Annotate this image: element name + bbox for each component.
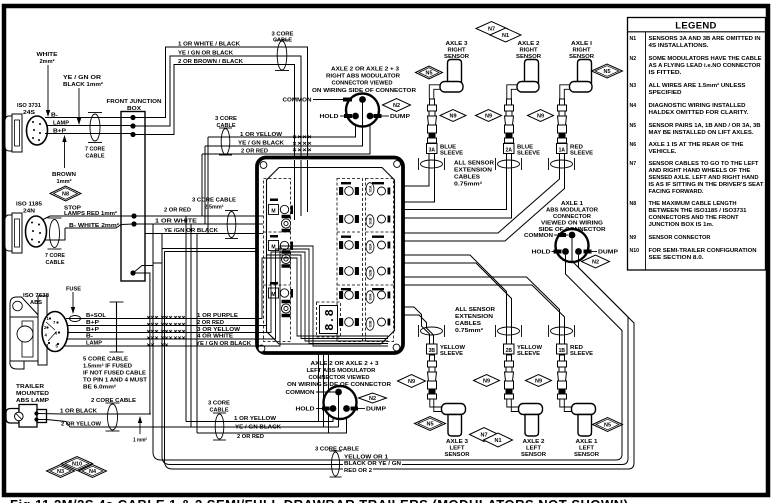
svg-text:RIGHT: RIGHT [573,48,591,54]
svg-text:SENSOR CABLES TO GO TO THE LEF: SENSOR CABLES TO GO TO THE LEFT [649,161,760,167]
sensor connector 2B stack [505,355,514,399]
svg-text:3 CORE CABLE: 3 CORE CABLE [315,447,359,453]
sensor connector 1A stack [558,99,567,143]
sleeve 3A [427,144,438,154]
svg-text:MOUNTED: MOUNTED [16,391,49,397]
svg-text:SEE SECTION 8.0.: SEE SECTION 8.0. [649,255,705,261]
svg-text:S3A: S3A [369,293,373,300]
svg-text:2 OR BROWN / BLACK: 2 OR BROWN / BLACK [178,59,244,65]
svg-text:S3B: S3B [369,320,373,327]
svg-text:1 OR BLACK: 1 OR BLACK [60,409,97,415]
node N5 axle3 left [415,417,446,431]
wires box bottom to left modulator [318,354,320,422]
svg-text:3 OR YELLOW: 3 OR YELLOW [197,327,241,333]
node N9 sensor 3B [398,375,426,388]
riser to stop wires [207,137,209,234]
node N7 bottom [470,428,499,442]
crimp marks bundle B [293,136,311,152]
pin DUMP [367,113,374,120]
svg-text:LEFT: LEFT [450,446,465,452]
svg-text:SENSORS 3A AND 3B ARE OMITTED: SENSORS 3A AND 3B ARE OMITTED IN [649,36,761,42]
screw top-left [260,162,267,169]
svg-text:COMMON: COMMON [524,233,553,239]
svg-text:COMMON: COMMON [286,390,315,396]
sleeve 2B [504,344,515,354]
solenoid row 4 mid [340,267,359,276]
svg-text:8.8: 8.8 [323,309,337,331]
wire 1 OR WHITE / BLACK [133,47,308,156]
pin DUMP [575,248,582,255]
svg-text:SENSOR: SENSOR [574,452,600,458]
bundle B verticals inside box [307,160,309,212]
svg-text:TRAILER: TRAILER [16,384,45,390]
svg-text:RIGHT: RIGHT [520,48,538,54]
node N5 axle1 left [593,418,623,432]
svg-text:BROWN: BROWN [52,172,76,178]
svg-text:AXLE 2: AXLE 2 [523,439,545,445]
wire B+P pin2 [67,325,257,327]
svg-text:3 CORE: 3 CORE [215,116,237,122]
svg-text:0.75mm²: 0.75mm² [455,327,483,334]
node N1 top [490,28,521,42]
dashed compartment right [366,179,394,342]
svg-text:N4: N4 [630,103,637,109]
node N10 [62,457,93,471]
wire B- to junction box [45,117,133,119]
svg-text:N5: N5 [604,423,611,429]
wire 2 OR RED to right modulator [202,121,370,154]
svg-text:EXTENSION: EXTENSION [454,168,492,174]
svg-text:N4: N4 [89,469,97,475]
svg-text:CONNECTORS AND THE FRONT: CONNECTORS AND THE FRONT [649,215,740,221]
svg-text:N8: N8 [630,201,637,207]
svg-text:AXLE 2: AXLE 2 [518,41,540,47]
svg-text:YE / GN OR BLACK: YE / GN OR BLACK [178,50,234,56]
legend box [628,18,766,271]
svg-text:2 OR RED: 2 OR RED [237,434,264,440]
svg-text:TO PIN 1 AND 4 MUST: TO PIN 1 AND 4 MUST [83,378,147,384]
axle 3 left sensor head [442,404,466,415]
node N9 sensor 2A [476,110,502,122]
svg-text:DUMP: DUMP [366,407,386,413]
svg-text:AXLE 1: AXLE 1 [561,201,584,207]
svg-text:B+P: B+P [53,128,66,134]
wire LAMP pin5 [64,345,257,347]
svg-text:1 OR YELLOW: 1 OR YELLOW [240,132,283,138]
svg-text:DIAGNOSTIC WIRING INSTALLED: DIAGNOSTIC WIRING INSTALLED [649,103,746,109]
svg-text:3A: 3A [429,147,436,153]
svg-text:FACING FORWARD.: FACING FORWARD. [649,189,705,195]
wire stop lamps red [42,216,134,220]
svg-text:1A: 1A [559,147,566,153]
pin HOLD [330,405,337,412]
wire B- pin3 [66,338,257,340]
svg-text:LEFT: LEFT [526,446,541,452]
svg-text:YE / GN OR: YE / GN OR [63,75,102,81]
junction dots middle [131,213,136,218]
svg-text:EXTENSION: EXTENSION [455,314,493,320]
svg-text:S2B: S2B [369,269,373,276]
svg-text:ISO 7638: ISO 7638 [23,293,50,299]
wire YE/GN OR BLACK [145,233,257,235]
svg-text:S2A: S2A [369,243,373,250]
extension cable marker 1B [551,327,573,335]
svg-text:CABLE: CABLE [86,154,105,160]
svg-text:N9: N9 [535,379,542,385]
wire 2 OR RED stop lamps [134,215,257,217]
solenoid row 3 mid [340,241,359,250]
wire 1 OR BLACK [39,413,152,416]
svg-text:CONNECTOR VIEWED: CONNECTOR VIEWED [309,375,370,381]
svg-text:SENSED AXLE. LEFT AND RIGHT HA: SENSED AXLE. LEFT AND RIGHT HAND [649,175,759,181]
wire from pin to B- [44,228,65,240]
svg-text:N6: N6 [630,142,637,148]
cable to axle 1 left head [560,399,572,407]
svg-text:N5: N5 [425,71,432,77]
svg-text:CONNECTOR VIEWED: CONNECTOR VIEWED [332,81,393,87]
svg-text:BE 6.0mm²: BE 6.0mm² [83,384,116,391]
7 core cable marker [50,220,60,248]
svg-text:Fig.11 2M/2S 4s CABLE 1 & 2 SE: Fig.11 2M/2S 4s CABLE 1 & 2 SEMI/FULL DR… [10,497,629,503]
svg-text:SPECIFIED: SPECIFIED [649,90,682,96]
drop wire to left modulator yellow [185,216,187,422]
svg-text:AXLE 2 OR AXLE 2 + 3: AXLE 2 OR AXLE 2 + 3 [311,361,380,367]
svg-text:AXLE 1: AXLE 1 [576,439,599,445]
drop wire to left modulator ye/gn [190,224,192,427]
svg-text:ALL SENSOR: ALL SENSOR [455,307,495,313]
svg-text:SENSOR: SENSOR [445,452,471,458]
link junction to bus [133,263,162,273]
valve tag S2A [366,241,374,254]
5 core cable marker [116,302,118,352]
svg-text:YE / GN OR BLACK: YE / GN OR BLACK [196,341,252,347]
svg-text:ALL SENSOR: ALL SENSOR [454,161,494,167]
display 88 [317,302,341,337]
svg-text:7 CORE: 7 CORE [85,147,105,153]
svg-text:RIGHT ABS MODULATOR: RIGHT ABS MODULATOR [326,74,401,80]
wire 2B sensor b [403,263,512,344]
svg-text:0.75mm²: 0.75mm² [454,181,482,188]
wire 2 OR RED to left modulator [197,411,347,433]
node N7 top [476,22,507,36]
svg-text:3 CORE: 3 CORE [208,401,230,407]
coil L1 [281,215,290,232]
svg-text:AXLE 3: AXLE 3 [446,439,469,445]
svg-text:1 OR WHITE: 1 OR WHITE [155,219,197,225]
wire 3A sensor b [403,153,435,202]
node N5 axle1 right [592,64,623,78]
svg-text:HALDEX OMITTED FOR CLARITY.: HALDEX OMITTED FOR CLARITY. [649,110,750,116]
svg-text:VIEWED ON WIRING: VIEWED ON WIRING [541,221,604,227]
svg-text:N3: N3 [57,469,64,475]
junction dots top [130,115,135,120]
axle 2 left sensor head [519,404,543,415]
svg-text:FRONT JUNCTION: FRONT JUNCTION [107,99,162,105]
wire B+SOL [66,318,257,320]
svg-text:N2: N2 [592,260,599,266]
svg-text:B+P: B+P [86,327,99,333]
svg-text:RED OR 2: RED OR 2 [344,468,372,474]
connector ISO 7638 ABS [10,297,40,321]
svg-text:N9: N9 [630,235,637,241]
valve tag S2B [366,267,374,280]
inner harness wires [259,258,389,336]
node N2 left modulator [359,393,387,403]
connector circle [556,229,589,262]
svg-text:BLACK 1mm²: BLACK 1mm² [63,81,103,88]
svg-text:B-: B- [51,112,58,118]
svg-text:SLEEVE: SLEEVE [440,151,463,157]
dashed compartment left [264,179,291,342]
svg-text:N2: N2 [369,396,376,402]
node N8 diamond [50,186,81,201]
svg-text:N9: N9 [483,379,490,385]
stop wires into box [257,215,264,217]
node N9 sensor 3A [440,110,466,122]
wire 2 OR YELLOW [39,420,192,428]
svg-text:ABS: ABS [30,300,42,306]
svg-text:LEFT ABS MODULATOR: LEFT ABS MODULATOR [307,368,377,374]
svg-text:5 CORE CABLE: 5 CORE CABLE [83,357,128,363]
svg-text:MAY BE INSTALLED ON LIFT AXLES: MAY BE INSTALLED ON LIFT AXLES. [649,130,755,136]
svg-text:AND RIGHT HAND WHEELS OF THE: AND RIGHT HAND WHEELS OF THE [649,168,752,174]
ECU main box outer [257,158,403,354]
svg-text:HOLD: HOLD [532,250,551,256]
svg-text:2B: 2B [506,348,513,354]
svg-text:VEHICLE.: VEHICLE. [649,149,678,155]
valve tag S1A [366,183,374,196]
svg-text:HOLD: HOLD [296,407,315,413]
wire B+P pin4 [67,332,257,334]
svg-text:2A: 2A [506,147,513,153]
sensor connector 3B stack [428,355,437,399]
svg-text:1 OR YELLOW: 1 OR YELLOW [234,416,277,422]
wire YE / GN OR BLACK [133,56,301,156]
valve tag S3B [366,318,374,331]
svg-text:WHITE: WHITE [37,52,58,58]
svg-text:SLEEVE: SLEEVE [517,351,540,357]
node N9 sensor 1B [526,375,552,387]
svg-text:N9: N9 [485,114,492,120]
bottom bus drop wires [153,224,616,460]
svg-text:YE / GN BLACK: YE / GN BLACK [235,425,281,431]
sleeve 2A [504,144,515,154]
svg-text:N7: N7 [630,161,637,167]
svg-text:2 OR RED: 2 OR RED [164,208,191,214]
svg-text:COMMON: COMMON [283,98,312,104]
svg-text:THE MAXIMUM CABLE LENGTH: THE MAXIMUM CABLE LENGTH [649,201,737,207]
svg-text:JUNCTION BOX IS 1m.: JUNCTION BOX IS 1m. [649,222,715,228]
svg-text:LEFT: LEFT [579,446,594,452]
coil L3 [281,300,290,317]
svg-text:M: M [271,245,275,251]
solenoid row 1 mid [340,187,359,196]
pin COMMON [338,392,340,427]
node N9 sensor 1A [528,110,554,122]
wire 3A sensor a [403,153,429,186]
wire YE / GN BLACK to right modulator [205,102,363,146]
7 core cable marker [90,114,100,141]
cable to axle 3 left head [430,399,442,407]
svg-text:2.5mm²: 2.5mm² [205,204,224,211]
wire 2A sensor b [403,153,512,218]
svg-text:HOLD: HOLD [320,114,339,120]
wire hold to wrap [566,255,623,460]
pin COMMON [569,232,576,239]
wire 2A sensor a [403,153,507,210]
svg-text:AXLE 2 OR AXLE 2 + 3: AXLE 2 OR AXLE 2 + 3 [331,67,400,73]
legend title rule [628,31,766,33]
extension cable marker 3B [421,327,443,335]
svg-text:1 mm²: 1 mm² [133,437,147,444]
wire 3B sensor a [403,307,430,344]
wire 1 OR YELLOW to left modulator [186,411,333,422]
splice marks on power wires [147,316,185,346]
svg-text:N1: N1 [630,36,637,42]
wire 1A sensor b [403,153,565,241]
svg-text:N5: N5 [630,123,637,129]
svg-text:B-: B- [86,334,93,340]
sensor connector 1B stack [558,355,567,399]
wire dump to wrap [579,255,635,469]
svg-text:1 OR WHITE / BLACK: 1 OR WHITE / BLACK [178,41,241,47]
front junction box [121,112,145,282]
svg-text:2mm²: 2mm² [40,58,55,65]
extension cable marker 2A [498,160,520,168]
svg-text:1.5mm² IF FUSED: 1.5mm² IF FUSED [83,363,132,370]
pin DUMP [343,405,350,412]
fuse symbol [70,316,81,322]
svg-text:SENSOR PAIRS 1A, 1B AND / OR 3: SENSOR PAIRS 1A, 1B AND / OR 3A, 3B [649,123,761,129]
inner chamfered outline [267,168,395,345]
screw bottom-right [393,344,400,351]
svg-text:B+SOL: B+SOL [86,313,106,319]
solenoid row 5 mid [340,291,359,300]
solenoid row 2 mid [340,215,359,224]
svg-text:ALL WIRES ARE 1.5mm² UNLESS: ALL WIRES ARE 1.5mm² UNLESS [649,83,747,89]
svg-text:IS FITTED.: IS FITTED. [649,70,683,76]
legend divider column [645,32,647,270]
wire LAMP to junction box [47,125,133,127]
svg-text:1 OR PURPLE: 1 OR PURPLE [197,313,238,319]
tag bars right column [372,182,384,184]
sleeve 1B [557,344,568,354]
svg-text:BOX: BOX [127,106,141,112]
svg-text:YE / GN BLACK: YE / GN BLACK [238,140,284,146]
axle 1 left sensor head [572,404,596,415]
wire 1A sensor a [403,153,560,233]
svg-text:IF NOT FUSED CABLE: IF NOT FUSED CABLE [83,371,146,377]
drop wire junction to lamp [133,273,150,414]
sleeve 1A [557,144,568,154]
svg-text:SLEEVE: SLEEVE [570,351,593,357]
svg-text:LEGEND: LEGEND [675,21,716,32]
svg-text:N2: N2 [630,56,637,62]
wire 1B sensor b [403,285,565,344]
wire 1 OR WHITE [134,223,257,225]
relay K3 [270,282,278,285]
wire 1B sensor a [403,277,560,344]
svg-text:4S INSTALLATIONS.: 4S INSTALLATIONS. [649,43,710,49]
svg-text:SLEEVE: SLEEVE [517,151,540,157]
pin COMMON [362,100,364,147]
svg-text:N7: N7 [488,27,495,33]
pin HOLD [562,248,569,255]
sensor connector 2A stack [505,99,514,143]
svg-text:CABLES: CABLES [454,175,480,181]
svg-text:ABS MODULATOR: ABS MODULATOR [546,208,599,214]
svg-text:AS A FLYING LEAD i.e.NO CONNEC: AS A FLYING LEAD i.e.NO CONNECTOR [649,63,761,69]
svg-text:N2: N2 [393,103,400,109]
svg-text:AXLE 1 IS AT THE REAR OF THE: AXLE 1 IS AT THE REAR OF THE [649,142,745,148]
svg-text:1B: 1B [559,348,566,354]
svg-text:B+P: B+P [86,320,99,326]
svg-text:24N: 24N [23,209,35,215]
wire YE / GN BLACK to left modulator [191,426,339,428]
node N5 axle3 right [416,66,443,79]
sensor connector 3A stack [428,99,437,143]
svg-text:DUMP: DUMP [390,114,410,120]
extension cable marker 3A [421,160,443,168]
pin HOLD [352,113,359,120]
svg-text:ISO 3731: ISO 3731 [17,103,42,109]
wire 2 OR BROWN / BLACK [133,65,295,157]
svg-text:SLEEVE: SLEEVE [440,351,463,357]
tag bars mid column [341,182,351,184]
relay K2 [270,235,278,238]
svg-text:RIGHT: RIGHT [448,48,466,54]
svg-text:1mm²: 1mm² [57,178,72,185]
wire 1 OR YELLOW to right modulator [208,121,356,137]
svg-text:CABLES: CABLES [455,321,481,327]
svg-text:2 OR RED: 2 OR RED [197,320,224,326]
svg-text:4 OR WHITE: 4 OR WHITE [197,334,233,340]
valve tag S1B [366,215,374,228]
screw bottom-left [258,345,265,352]
svg-text:S1A: S1A [369,185,373,192]
svg-text:N9: N9 [449,114,456,120]
svg-text:BLACK OR YE / GN: BLACK OR YE / GN [344,461,401,467]
wire 2B sensor a [403,255,507,344]
svg-text:ABS LAMP: ABS LAMP [16,398,49,404]
cable to axle 2 left head [507,399,519,407]
svg-text:SOME MODULATORS HAVE THE CABLE: SOME MODULATORS HAVE THE CABLE [649,56,763,62]
svg-text:3B: 3B [429,348,436,354]
svg-text:FOR SEMI-TRAILER CONFIGURATION: FOR SEMI-TRAILER CONFIGURATION [649,248,757,254]
svg-text:N9: N9 [537,114,544,120]
svg-text:LAMP: LAMP [86,341,102,347]
svg-text:N3: N3 [630,83,637,89]
junction dot bottom [130,270,135,275]
svg-text:N7: N7 [480,433,487,439]
valve tag S3A [366,291,374,304]
solenoid row 6 mid [340,318,359,327]
dashed compartment middle [337,179,363,342]
node N4 [79,465,107,478]
extension cable marker 2B [498,327,520,335]
svg-text:FUSE: FUSE [66,287,81,293]
svg-text:N8: N8 [62,192,69,198]
wire 3B sensor b [403,315,434,344]
svg-text:7 CORE: 7 CORE [45,253,65,259]
svg-text:LAMP: LAMP [53,120,69,126]
coil L2 [281,251,290,268]
screw top-right [394,161,401,168]
wire common to wrap [572,239,628,465]
svg-text:DUMP: DUMP [598,250,618,256]
svg-text:AXLE 3: AXLE 3 [446,41,469,47]
svg-text:N5: N5 [603,69,610,75]
